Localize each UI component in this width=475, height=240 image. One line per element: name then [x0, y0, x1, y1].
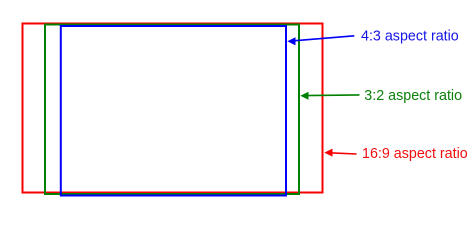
red 16:9 rectangle: [23, 24, 323, 193]
green arrow to 3:2: [300, 92, 359, 100]
svg-text:16:9 aspect ratio: 16:9 aspect ratio: [362, 146, 468, 162]
red arrow to 16:9: [324, 149, 356, 157]
green 3:2 rectangle: [45, 25, 299, 195]
blue 4:3 rectangle: [61, 26, 286, 196]
blue arrow to 4:3: [287, 36, 354, 46]
svg-text:3:2 aspect ratio: 3:2 aspect ratio: [364, 88, 462, 104]
svg-text:4:3 aspect ratio: 4:3 aspect ratio: [361, 29, 459, 45]
